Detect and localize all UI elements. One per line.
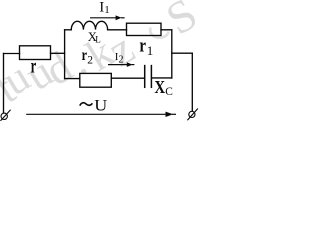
terminal right [188,109,198,120]
wire node A to r2 [65,78,80,80]
inductor XL [71,21,107,29]
wire left horizontal [4,53,20,55]
wire T to outer [172,52,193,54]
wire r2 to capacitor [111,77,144,79]
current arrow I2 [108,62,134,67]
wire capacitor to right [152,77,172,79]
wire r1 to corner [161,29,172,31]
resistor r1 [127,23,162,35]
resistor r [20,46,51,60]
wire top left stub [65,29,72,31]
label U [80,98,108,115]
wire right outer vertical [191,53,193,111]
svg-text:U: U [94,98,107,115]
capacitor XC [145,66,152,88]
resistor r2 [80,73,112,87]
wire r to node A [51,52,65,54]
voltage arrow U [26,112,176,117]
wire right inner vertical [171,30,173,78]
current arrow I1 [90,15,125,20]
wire node A vertical [64,30,66,79]
wire left vertical [3,54,5,113]
wire XL to r1 [108,29,127,31]
terminal left [1,110,10,120]
svg-text:r: r [31,56,37,78]
